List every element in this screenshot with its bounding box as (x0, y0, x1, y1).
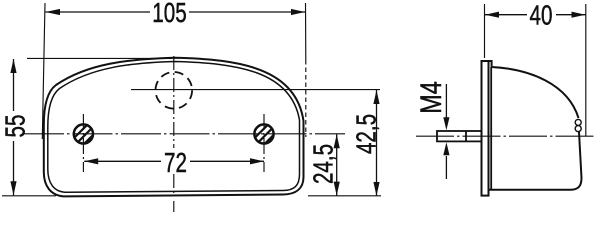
stud center line (416, 135, 596, 137)
svg-text:55: 55 (1, 115, 32, 138)
dimension 72 label (164, 148, 187, 179)
svg-text:72: 72 (164, 148, 187, 179)
M4 threaded stud (437, 131, 482, 141)
side view body face line (490, 67, 492, 190)
bulb circle (dashed) (156, 72, 193, 109)
dimension 24,5 line and arrows (334, 134, 340, 195)
dimension 105 line and arrows (46, 9, 306, 15)
dimension 40 line and arrows (485, 12, 586, 18)
dimension 42,5 label (352, 114, 383, 154)
dimension 42,5 line and arrows (373, 90, 379, 196)
dimension 105 label (152, 0, 186, 29)
svg-text:M4: M4 (414, 81, 447, 114)
dimension 72 line and arrows (84, 158, 264, 164)
svg-text:105: 105 (152, 0, 186, 29)
side view lens profile (482, 61, 579, 118)
side view lens clip detail (575, 119, 581, 131)
holes horizontal center line (24, 133, 345, 135)
side view flange plate (482, 61, 489, 196)
dimension 40 label (530, 1, 553, 32)
dimension 55 line and arrows (10, 59, 16, 195)
dimension 42,5 extension lines (308, 195, 381, 197)
dimension M4 label (414, 81, 447, 114)
left hole center line vertical (82, 114, 84, 172)
dimension 55 label (1, 115, 32, 138)
bulb horizontal center line (131, 89, 380, 91)
vertical center line front view (173, 56, 175, 212)
mounting hole right (248, 117, 280, 149)
mounting hole left (67, 117, 99, 149)
side view housing lower outline (489, 132, 582, 190)
lamp outer outline (44, 58, 304, 197)
dimension 24,5 label (309, 144, 340, 184)
svg-text:42,5: 42,5 (352, 114, 383, 154)
dimension M4 arrows (443, 84, 449, 179)
lens inner outline (48, 62, 300, 193)
dimension 55 extension lines (2, 58, 172, 195)
svg-text:40: 40 (530, 1, 553, 32)
svg-text:24,5: 24,5 (309, 144, 340, 184)
dimension 40 extension lines (485, 4, 586, 136)
dimension 105 extension lines (42, 3, 306, 139)
right hole center line vertical (263, 114, 265, 172)
